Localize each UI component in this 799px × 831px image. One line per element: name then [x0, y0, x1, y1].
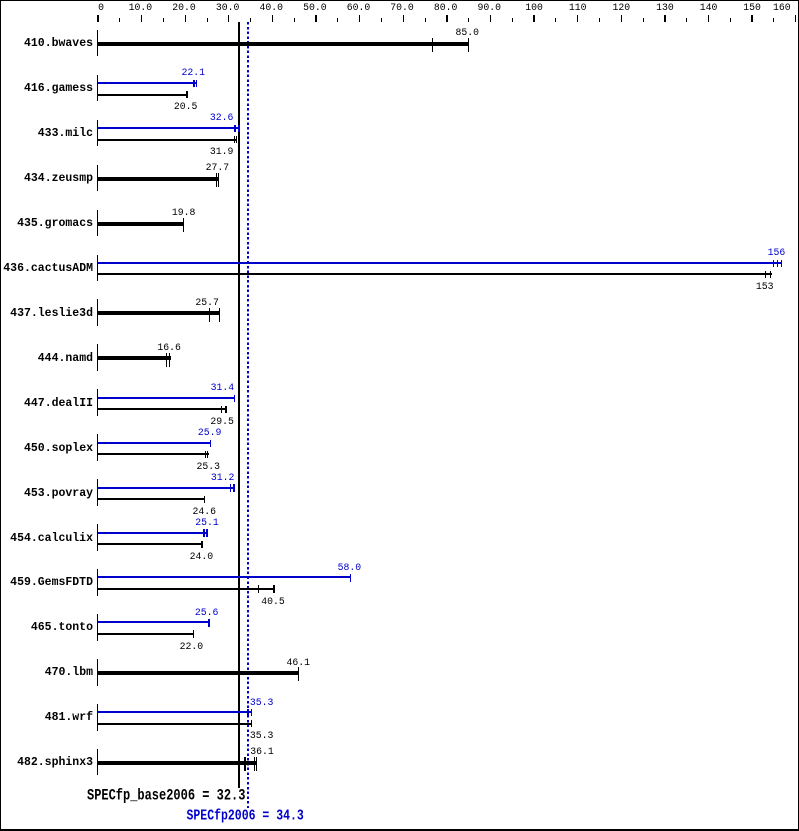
axis minor tick 25	[207, 18, 208, 22]
bar 416.gamess peak (22.1)	[98, 82, 197, 84]
value label 465.tonto base 22.0	[177, 642, 205, 652]
axis major tick 50.0	[315, 15, 316, 22]
benchmark label 453.povray	[0, 488, 93, 500]
axis label 10.0	[129, 3, 153, 13]
run tick 416.gamess peak #2	[196, 80, 198, 87]
axis label 160	[773, 3, 791, 13]
value label 454.calculix base 24.0	[187, 552, 215, 562]
run tick 434.zeusmp base #1	[216, 173, 217, 187]
axis minor tick 105	[555, 18, 556, 22]
bar 444.namd base (16.6)	[98, 356, 171, 360]
run tick 454.calculix peak #2	[206, 529, 207, 536]
axis major tick 90.0	[490, 15, 491, 22]
run tick 436.cactusADM base #1	[765, 271, 766, 278]
axis major tick 100	[533, 15, 534, 22]
run tick 453.povray peak #2	[233, 484, 234, 491]
run tick 410.bwaves base #1	[432, 38, 433, 52]
axis major tick 140	[708, 15, 709, 22]
benchmark label 481.wrf	[0, 712, 93, 724]
run tick 437.leslie3d base #1	[209, 308, 210, 322]
axis minor tick 115	[599, 18, 600, 22]
row axis segment 453.povray	[97, 479, 98, 506]
axis label 50.0	[303, 3, 327, 13]
axis label 110	[569, 3, 587, 13]
value label 453.povray base 24.6	[190, 507, 218, 517]
run tick 433.milc base #2	[236, 136, 237, 143]
value label 465.tonto peak 25.6	[193, 608, 221, 618]
run tick 482.sphinx3 base #1	[244, 757, 245, 771]
axis label 150	[743, 3, 761, 13]
axis major tick 150	[751, 15, 752, 22]
axis label 20.0	[172, 3, 196, 13]
axis major tick 10.0	[141, 15, 142, 22]
run tick 470.lbm base #1	[298, 667, 299, 681]
axis major tick 30.0	[228, 15, 229, 22]
value label 447.dealII base 29.5	[208, 417, 236, 427]
run tick 436.cactusADM base #2	[770, 271, 771, 278]
axis label 130	[656, 3, 674, 13]
SPECfp2006 mean line (34.3, dotted)	[247, 22, 249, 808]
axis major tick 130	[664, 15, 665, 22]
value label 410.bwaves base 85.0	[453, 28, 481, 38]
run tick 482.sphinx3 base #2	[254, 757, 255, 771]
bar 454.calculix peak (25.1)	[98, 532, 208, 534]
row axis segment 416.gamess	[97, 75, 98, 102]
run tick 459.GemsFDTD peak #1	[350, 574, 351, 581]
benchmark label 454.calculix	[0, 533, 93, 545]
benchmark label 434.zeusmp	[0, 173, 93, 185]
value label 437.leslie3d base 25.7	[193, 298, 221, 308]
run tick 447.dealII base #1	[221, 406, 222, 413]
axis major tick 20.0	[185, 15, 186, 22]
value label 450.soplex base 25.3	[194, 462, 222, 472]
footer SPECfp_base2006 = 32.3	[87, 788, 252, 805]
row axis segment 437.leslie3d	[97, 299, 98, 326]
axis major tick 40.0	[272, 15, 273, 22]
benchmark label 436.cactusADM	[0, 263, 93, 275]
bar 433.milc peak (32.6)	[98, 127, 240, 129]
value label 433.milc peak 32.6	[208, 113, 236, 123]
axis major tick 110	[577, 15, 578, 22]
axis minor tick 155	[773, 18, 774, 22]
bar 437.leslie3d base (25.7)	[98, 311, 220, 315]
row axis segment 465.tonto	[97, 614, 98, 641]
SPECfp_base2006 mean line (32.3)	[238, 22, 240, 788]
run tick 450.soplex base #1	[205, 451, 206, 458]
run tick 447.dealII peak #1	[234, 395, 235, 402]
run tick 444.namd base #1	[166, 353, 167, 367]
value label 481.wrf peak 35.3	[248, 698, 276, 708]
run tick 481.wrf base #1	[251, 720, 252, 727]
value label 453.povray peak 31.2	[209, 473, 237, 483]
bar 465.tonto peak (25.6)	[98, 621, 210, 623]
bar 416.gamess base (20.5)	[98, 94, 188, 96]
benchmark label 410.bwaves	[0, 38, 93, 50]
run tick 481.wrf peak #1	[247, 709, 248, 716]
run tick 450.soplex base #2	[207, 451, 208, 458]
bar 447.dealII peak (31.4)	[98, 397, 235, 399]
benchmark label 435.gromacs	[0, 218, 93, 230]
axis label 120	[613, 3, 631, 13]
run tick 454.calculix base #1	[201, 541, 202, 548]
value label 416.gamess base 20.5	[172, 102, 200, 112]
axis minor tick 35	[250, 18, 251, 22]
run tick 453.povray base #1	[204, 496, 205, 503]
axis label 140	[700, 3, 718, 13]
bar 481.wrf peak (35.3)	[98, 711, 252, 713]
axis label 40.0	[260, 3, 284, 13]
value label 447.dealII peak 31.4	[208, 383, 236, 393]
footer SPECfp2006 = 34.3	[187, 810, 312, 827]
row axis segment 447.dealII	[97, 389, 98, 416]
run tick 433.milc peak #1	[234, 125, 235, 132]
axis label 30.0	[216, 3, 240, 13]
axis label 80.0	[434, 3, 458, 13]
run tick 433.milc peak #2	[238, 125, 240, 132]
axis major tick 70.0	[403, 15, 404, 22]
value label 435.gromacs base 19.8	[170, 208, 198, 218]
value label 482.sphinx3 base 36.1	[248, 747, 276, 757]
benchmark label 437.leslie3d	[0, 308, 93, 320]
bar 447.dealII base (29.5)	[98, 408, 227, 410]
axis minor tick 55	[337, 18, 338, 22]
run tick 450.soplex peak #1	[210, 440, 211, 447]
run tick 410.bwaves base #2	[468, 38, 469, 52]
benchmark label 470.lbm	[0, 667, 93, 679]
row axis segment 470.lbm	[97, 659, 98, 686]
run tick 416.gamess base #1	[186, 91, 188, 98]
value label 444.namd base 16.6	[155, 343, 183, 353]
value label 433.milc base 31.9	[208, 147, 236, 157]
bar 435.gromacs base (19.8)	[98, 222, 184, 226]
benchmark label 433.milc	[0, 128, 93, 140]
axis label 60.0	[347, 3, 371, 13]
run tick 453.povray peak #1	[230, 484, 231, 491]
run tick 436.cactusADM peak #3	[781, 260, 782, 267]
axis minor tick 95	[512, 18, 513, 22]
axis label 0	[98, 3, 104, 13]
row axis segment 434.zeusmp	[97, 165, 98, 192]
run tick 435.gromacs base #1	[183, 218, 184, 232]
bar 434.zeusmp base (27.7)	[98, 177, 219, 181]
run tick 436.cactusADM peak #1	[773, 260, 774, 267]
axis major tick 160	[795, 15, 796, 22]
run tick 434.zeusmp base #2	[218, 173, 219, 187]
bar 465.tonto base (22.0)	[98, 633, 194, 635]
run tick 416.gamess peak #1	[193, 80, 194, 87]
benchmark label 447.dealII	[0, 398, 93, 410]
bar 453.povray base (24.6)	[98, 498, 205, 500]
axis minor tick 45	[294, 18, 295, 22]
value label 416.gamess peak 22.1	[179, 68, 207, 78]
run tick 436.cactusADM peak #2	[777, 260, 778, 267]
row axis segment 450.soplex	[97, 434, 98, 461]
run tick 465.tonto base #1	[193, 630, 194, 637]
run tick 437.leslie3d base #2	[219, 308, 220, 322]
row axis segment 410.bwaves	[97, 30, 98, 57]
row axis segment 436.cactusADM	[97, 255, 98, 282]
benchmark label 465.tonto	[0, 622, 93, 634]
bar 450.soplex base (25.3)	[98, 453, 209, 455]
bar 459.GemsFDTD base (40.5)	[98, 588, 275, 590]
value label 434.zeusmp base 27.7	[203, 163, 231, 173]
bar 459.GemsFDTD peak (58.0)	[98, 576, 351, 578]
value label 481.wrf base 35.3	[248, 731, 276, 741]
value label 470.lbm base 46.1	[284, 658, 312, 668]
benchmark label 459.GemsFDTD	[0, 577, 93, 589]
axis minor tick 85	[468, 18, 469, 22]
row axis segment 481.wrf	[97, 704, 98, 731]
value label 436.cactusADM base 153	[751, 282, 779, 292]
value label 459.GemsFDTD base 40.5	[259, 597, 287, 607]
axis major tick 0	[97, 15, 98, 22]
benchmark label 482.sphinx3	[0, 757, 93, 769]
row axis segment 459.GemsFDTD	[97, 569, 98, 596]
axis minor tick 75	[425, 18, 426, 22]
bar 436.cactusADM peak (156)	[98, 262, 782, 264]
run tick 433.milc base #1	[234, 136, 235, 143]
bar 410.bwaves base (85.0)	[98, 42, 469, 46]
bar 470.lbm base (46.1)	[98, 671, 299, 675]
axis major tick 60.0	[359, 15, 360, 22]
axis minor tick 65	[381, 18, 382, 22]
value label 436.cactusADM peak 156	[763, 248, 791, 258]
benchmark label 416.gamess	[0, 83, 93, 95]
row axis segment 435.gromacs	[97, 210, 98, 237]
axis major tick 120	[621, 15, 622, 22]
row axis segment 454.calculix	[97, 524, 98, 551]
run tick 447.dealII base #2	[225, 406, 226, 413]
bar 482.sphinx3 base (36.1)	[98, 761, 257, 765]
bar 450.soplex peak (25.9)	[98, 442, 211, 444]
axis major tick 80.0	[446, 15, 447, 22]
bar 453.povray peak (31.2)	[98, 487, 235, 489]
bar 481.wrf base (35.3)	[98, 723, 252, 725]
bar 454.calculix base (24.0)	[98, 543, 203, 545]
run tick 481.wrf peak #2	[251, 709, 252, 716]
row axis segment 444.namd	[97, 344, 98, 371]
axis minor tick 5	[119, 18, 120, 22]
benchmark label 444.namd	[0, 353, 93, 365]
run tick 465.tonto peak #1	[208, 619, 209, 626]
axis minor tick 15	[163, 18, 164, 22]
bar 436.cactusADM base (153)	[98, 273, 772, 275]
bar 433.milc base (31.9)	[98, 139, 237, 141]
run tick 459.GemsFDTD base #1	[258, 585, 259, 592]
row axis segment 482.sphinx3	[97, 749, 98, 776]
chart border frame	[0, 0, 799, 1]
axis minor tick 125	[643, 18, 644, 22]
value label 450.soplex peak 25.9	[196, 428, 224, 438]
axis minor tick 135	[686, 18, 687, 22]
run tick 459.GemsFDTD base #2	[273, 585, 274, 592]
value label 454.calculix peak 25.1	[193, 518, 221, 528]
run tick 444.namd base #2	[169, 353, 170, 367]
value label 459.GemsFDTD peak 58.0	[335, 563, 363, 573]
axis label 70.0	[390, 3, 414, 13]
row axis segment 433.milc	[97, 120, 98, 147]
run tick 454.calculix peak #1	[203, 529, 204, 536]
axis label 90.0	[478, 3, 502, 13]
run tick 482.sphinx3 base #3	[256, 757, 257, 771]
benchmark label 450.soplex	[0, 443, 93, 455]
axis minor tick 145	[730, 18, 731, 22]
axis label 100	[525, 3, 543, 13]
